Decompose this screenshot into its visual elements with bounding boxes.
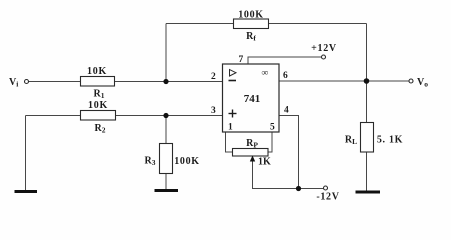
wire RL to ground xyxy=(366,152,368,191)
wire Rp wiper down to -12V rail xyxy=(253,161,299,189)
wire pin 4 to -12V rail xyxy=(279,116,299,189)
wire R3 to ground xyxy=(165,174,167,190)
terminal Vi xyxy=(9,77,29,89)
svg-text:3: 3 xyxy=(211,106,216,116)
svg-text:5: 5 xyxy=(270,123,275,133)
svg-text:-12V: -12V xyxy=(316,192,339,203)
svg-text:10K: 10K xyxy=(88,100,108,111)
wire node B down to R3 xyxy=(165,116,167,144)
terminal +12V xyxy=(311,43,337,59)
svg-text:7: 7 xyxy=(239,55,244,65)
node -12V junction xyxy=(296,186,301,191)
inverting input triangle mark xyxy=(230,70,237,77)
svg-text:6: 6 xyxy=(283,71,288,81)
wire left vertical to ground xyxy=(25,116,27,191)
svg-text:1: 1 xyxy=(228,123,233,133)
svg-text:4: 4 xyxy=(284,106,289,116)
resistor Rf xyxy=(234,10,269,43)
svg-text:∞: ∞ xyxy=(262,69,269,79)
resistor RL xyxy=(345,123,403,153)
svg-text:Vi: Vi xyxy=(9,77,18,89)
wire pin 5 down to Rp xyxy=(268,132,272,152)
svg-text:R2: R2 xyxy=(95,123,106,135)
node B (pin3 junction) xyxy=(163,113,168,118)
svg-text:+12V: +12V xyxy=(311,43,337,54)
ground under R3 xyxy=(155,189,179,192)
svg-text:Vo: Vo xyxy=(417,77,428,89)
wire R2 to op-amp pin 3 xyxy=(116,115,223,117)
svg-text:5. 1K: 5. 1K xyxy=(377,135,403,146)
svg-text:100K: 100K xyxy=(238,10,264,21)
potentiometer Rp xyxy=(233,138,272,168)
wire R1 to op-amp pin 2 xyxy=(115,81,223,83)
ground left xyxy=(15,190,38,193)
svg-text:R1: R1 xyxy=(94,89,105,101)
wire Rf to top right corner xyxy=(269,23,367,25)
svg-text:1K: 1K xyxy=(258,157,271,168)
resistor R2 xyxy=(81,100,116,135)
node A (pin2 junction) xyxy=(163,79,168,84)
svg-text:741: 741 xyxy=(244,93,261,105)
terminal Vo xyxy=(409,77,428,89)
ground under RL xyxy=(356,191,381,194)
svg-text:R3: R3 xyxy=(145,156,156,168)
wire pin 7 to +12V xyxy=(248,57,323,64)
resistor R1 xyxy=(81,66,115,100)
terminal -12V xyxy=(316,186,339,203)
wire pin 1 down to Rp xyxy=(226,132,233,152)
svg-text:2: 2 xyxy=(211,72,216,82)
wire pin 6 to output node xyxy=(279,80,367,82)
wire output node to Vo xyxy=(367,80,410,82)
wire Vi to R1 xyxy=(29,81,81,83)
minus sign pin 2 xyxy=(229,80,237,82)
svg-text:RP: RP xyxy=(246,138,258,150)
svg-text:10K: 10K xyxy=(87,66,107,77)
wire feedback top left to Rf xyxy=(166,23,234,25)
node output junction xyxy=(364,78,370,84)
wiper arrow xyxy=(250,156,255,162)
wire feedback vertical from node A xyxy=(165,24,167,82)
svg-text:100K: 100K xyxy=(174,156,200,167)
wire feedback down to output node xyxy=(366,24,368,82)
svg-text:Rf: Rf xyxy=(246,31,256,43)
plus sign pin 3 xyxy=(229,110,237,118)
svg-text:RL: RL xyxy=(345,135,357,147)
resistor R3 xyxy=(145,144,200,174)
op-amp U1 741 xyxy=(211,55,289,133)
wire output node down to RL xyxy=(366,81,368,123)
wire R2 left to corner xyxy=(26,115,81,117)
wire -12V rail to terminal xyxy=(299,188,324,190)
